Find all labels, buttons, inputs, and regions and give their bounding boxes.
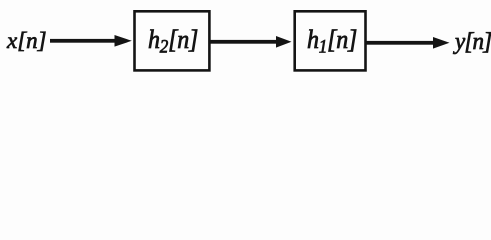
svg-text:h1[n]: h1[n] [307,24,357,57]
svg-text:x[n]: x[n] [6,28,47,53]
svg-text:h2[n]: h2[n] [148,24,198,57]
svg-text:y[n]: y[n] [453,28,491,55]
